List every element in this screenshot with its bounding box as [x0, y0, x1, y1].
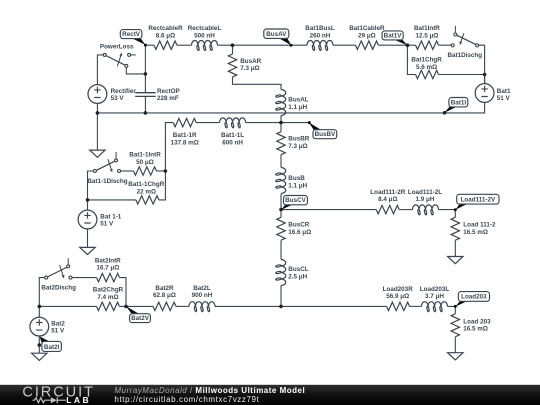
svg-text:62.8 μΩ: 62.8 μΩ — [153, 292, 176, 299]
svg-text:Bat1-1IntR: Bat1-1IntR — [129, 152, 161, 159]
svg-text:LAB: LAB — [66, 395, 91, 405]
switch Bat2Dischg — [45, 276, 48, 279]
svg-text:8.4 μΩ: 8.4 μΩ — [378, 196, 397, 203]
resistor Bat1IntR — [416, 41, 439, 49]
wire top row from RectV node to Bat1 switch — [145, 44, 154, 46]
node label BusBV — [308, 121, 311, 124]
wire Bat1ChgR to Bat1 column — [439, 74, 485, 76]
wire RectV node down through RectOP to return row — [144, 45, 146, 92]
svg-text:RectOP: RectOP — [157, 88, 180, 95]
node label BusCV — [281, 204, 293, 210]
junction Bat2 source top — [38, 305, 42, 309]
wire Bat1 column junction vertical — [484, 75, 486, 84]
svg-text:51 V: 51 V — [497, 95, 511, 102]
svg-text:RectcableR: RectcableR — [148, 25, 183, 32]
svg-text:BusCR: BusCR — [288, 222, 309, 229]
svg-text:3.7 μH: 3.7 μH — [425, 293, 444, 300]
svg-text:51 V: 51 V — [100, 221, 114, 228]
svg-text:7.3 μΩ: 7.3 μΩ — [240, 65, 259, 72]
svg-text:http://circuitlab.com/chmtxc7v: http://circuitlab.com/chmtxc7vzz79t — [114, 395, 259, 404]
svg-text:BusAV: BusAV — [266, 31, 287, 38]
junction Bat1-1IntR right — [164, 169, 168, 173]
inductor BusAL — [281, 90, 286, 116]
resistor Bat2ChgR — [97, 302, 120, 310]
wire rectifier bottom to return row — [96, 103, 98, 113]
wire bottom row Bat2 to bus — [39, 305, 96, 307]
svg-text:8.6 μΩ: 8.6 μΩ — [156, 33, 175, 40]
svg-text:Rectifier: Rectifier — [111, 88, 137, 95]
CircuitLab logo waveform — [33, 398, 51, 403]
node label BusAV — [290, 44, 293, 47]
ground below Load 203 — [448, 353, 463, 360]
svg-text:Load111-2V: Load111-2V — [461, 197, 496, 204]
svg-text:Bat2L: Bat2L — [193, 285, 211, 292]
svg-text:Bat2IntR: Bat2IntR — [95, 257, 121, 264]
resistor Bat1-1R — [173, 118, 196, 126]
svg-text:BusAR: BusAR — [240, 58, 261, 65]
wire Bat1-1 row junction to BusBV stub — [281, 122, 310, 124]
node label Bat2V — [126, 306, 140, 314]
svg-text:BusBV: BusBV — [315, 131, 336, 138]
inductor BusB — [281, 168, 286, 194]
ground below Bat 1-1 — [80, 247, 95, 254]
wire Bat1-1R/L row — [165, 123, 173, 171]
svg-text:Load 111-2: Load 111-2 — [463, 222, 496, 229]
svg-text:16.5 mΩ: 16.5 mΩ — [463, 326, 488, 333]
svg-text:Bat2: Bat2 — [51, 320, 65, 327]
svg-text:Bat2ChgR: Bat2ChgR — [93, 287, 124, 294]
wire Bat2IntR row — [72, 277, 97, 279]
svg-text:228 mF: 228 mF — [157, 95, 179, 102]
resistor Load203R — [387, 302, 410, 310]
svg-text:5.6 mΩ: 5.6 mΩ — [416, 64, 437, 71]
wire Bat2 source to ground — [38, 306, 40, 317]
wire PowerLoss output to RectOP node — [126, 67, 145, 74]
wire bus BusBR to BusB — [280, 123, 282, 132]
svg-text:Bat1I: Bat1I — [451, 99, 467, 106]
junction rectifier return — [96, 111, 100, 115]
svg-text:MurrayMacDonald / Millwoods Ul: MurrayMacDonald / Millwoods Ultimate Mod… — [114, 386, 305, 395]
svg-text:Load 203: Load 203 — [463, 319, 491, 326]
junction RectOP return — [144, 111, 148, 115]
svg-text:PowerLoss: PowerLoss — [100, 43, 134, 50]
footer bar — [0, 385, 540, 405]
voltage source Bat 1-1 — [78, 210, 97, 229]
svg-text:Bat1CableR: Bat1CableR — [349, 25, 385, 32]
wire Bat1-1ChgR row — [88, 199, 136, 201]
svg-text:Bat1-1Dischg: Bat1-1Dischg — [87, 178, 127, 185]
voltage source Bat2 — [30, 317, 49, 336]
resistor Load 111-2 — [451, 217, 459, 240]
svg-text:50 μΩ: 50 μΩ — [136, 159, 154, 166]
svg-text:22 mΩ: 22 mΩ — [137, 188, 156, 195]
svg-text:RectV: RectV — [122, 31, 141, 38]
svg-text:RectcableL: RectcableL — [188, 25, 222, 32]
svg-text:Bat1BusL: Bat1BusL — [305, 25, 335, 32]
svg-text:Load203L: Load203L — [420, 286, 450, 293]
svg-text:7.4 mΩ: 7.4 mΩ — [97, 294, 118, 301]
svg-text:500 nH: 500 nH — [194, 33, 215, 40]
svg-text:2.5 μH: 2.5 μH — [288, 273, 307, 280]
resistor Bat2IntR — [97, 273, 120, 281]
wire Bat1-1IntR row — [121, 170, 134, 172]
svg-text:260 nH: 260 nH — [310, 33, 331, 40]
node label Load203 — [454, 305, 457, 308]
wire BusAR branch — [232, 45, 234, 54]
wire Load111 row from bus — [281, 209, 376, 211]
svg-text:7.3 μΩ: 7.3 μΩ — [288, 143, 307, 150]
svg-text:Bat1ChgR: Bat1ChgR — [411, 57, 442, 64]
inductor Load203L — [422, 302, 448, 307]
inductor RectcableL — [192, 41, 218, 46]
junction BusAR tap — [231, 43, 235, 47]
svg-text:900 nH: 900 nH — [192, 292, 213, 299]
inductor Bat1BusL — [307, 41, 333, 46]
node label Bat1I — [443, 111, 447, 115]
switch Bat1-1Dischg — [93, 170, 96, 173]
svg-text:BusCL: BusCL — [288, 266, 308, 273]
resistor Bat2R — [153, 302, 176, 310]
svg-text:51 V: 51 V — [51, 328, 65, 335]
svg-text:56.9 μΩ: 56.9 μΩ — [386, 293, 409, 300]
node label Bat1V — [394, 40, 408, 46]
svg-text:Load203: Load203 — [461, 294, 487, 301]
junction Bat1-1 source top — [86, 198, 90, 202]
svg-text:BusB: BusB — [288, 175, 305, 182]
svg-text:16.6 μΩ: 16.6 μΩ — [288, 229, 311, 236]
wire Bat1V node down to Bat1ChgR — [407, 45, 415, 74]
svg-text:Bat1-1ChgR: Bat1-1ChgR — [128, 181, 164, 188]
svg-text:16.7 μΩ: 16.7 μΩ — [96, 265, 119, 272]
wire bus BusB to BusCV node — [280, 194, 282, 210]
svg-text:Bat2R: Bat2R — [155, 285, 174, 292]
wire Load 111-2 to ground — [454, 240, 456, 256]
junction Bat1ChgR-Bat1 node — [483, 73, 487, 77]
svg-text:BusCV: BusCV — [285, 197, 306, 204]
wire bus BusCR leads — [280, 210, 282, 218]
svg-text:29 μΩ: 29 μΩ — [358, 33, 376, 40]
resistor Load111-2R — [376, 205, 399, 213]
resistor BusAR — [228, 54, 236, 77]
svg-text:Bat1Dischg: Bat1Dischg — [447, 52, 482, 59]
wire bus BusCL to bottom row — [280, 286, 282, 307]
svg-text:53 V: 53 V — [111, 95, 125, 102]
wire Bat1-1 source to ground — [87, 200, 89, 210]
junction BusCV node — [279, 208, 283, 212]
svg-text:BusBR: BusBR — [288, 136, 309, 143]
resistor Bat1ChgR — [416, 70, 439, 78]
inductor BusCL — [281, 260, 286, 286]
svg-text:1.9 μH: 1.9 μH — [416, 196, 435, 203]
wire Bat1 switch to Bat1 top — [479, 45, 485, 83]
inductor Bat1-1L — [220, 118, 246, 123]
svg-text:600 nH: 600 nH — [222, 139, 243, 146]
svg-text:Bat2I: Bat2I — [44, 344, 60, 351]
capacitor RectOP — [135, 93, 155, 97]
wire BusAL to Bat1-1 row junction — [280, 116, 282, 123]
svg-text:Bat1IntR: Bat1IntR — [414, 25, 440, 32]
resistor Load 203 — [451, 314, 459, 337]
ground below rectifier — [90, 150, 105, 157]
wire Bat1-1 switch to left column — [88, 171, 94, 200]
resistor Bat1CableR — [356, 41, 379, 49]
svg-text:12.5 μΩ: 12.5 μΩ — [415, 33, 438, 40]
svg-text:Bat1: Bat1 — [497, 88, 511, 95]
wire bottom row bus to Load203 — [281, 305, 387, 307]
svg-text:Load111-2L: Load111-2L — [408, 189, 442, 196]
svg-text:BusAL: BusAL — [288, 97, 308, 104]
wire return row rectifier to Bat1 bottom — [97, 102, 484, 113]
inductor Bat2L — [189, 302, 215, 307]
wire rectifier ground stub — [96, 113, 98, 150]
svg-text:1.1 μH: 1.1 μH — [288, 182, 307, 189]
resistor Bat1-1ChgR — [136, 196, 159, 204]
wire Load 203 to ground — [454, 337, 456, 353]
resistor Bat1-1IntR — [134, 167, 157, 175]
svg-text:Bat 1-1: Bat 1-1 — [100, 213, 121, 220]
resistor BusCR — [277, 217, 285, 240]
junction bus bottom row — [279, 305, 283, 309]
node label Load111-2V — [454, 208, 457, 211]
svg-text:Bat1-1R: Bat1-1R — [173, 132, 197, 139]
svg-text:Bat2Dischg: Bat2Dischg — [41, 285, 76, 292]
svg-text:137.8 mΩ: 137.8 mΩ — [171, 139, 199, 146]
svg-text:Load203R: Load203R — [383, 286, 414, 293]
junction Bat1V node — [406, 43, 410, 47]
voltage source Bat1 — [475, 84, 494, 103]
ground below Load 111-2 — [448, 257, 463, 264]
junction PowerLoss-RectOP node — [144, 72, 148, 76]
junction Bat2V node — [124, 305, 128, 309]
ground below Bat2 — [32, 353, 47, 360]
node label Bat2I — [38, 343, 42, 347]
wire Bat2 switch column — [39, 278, 44, 307]
svg-text:Bat2V: Bat2V — [131, 315, 150, 322]
svg-text:Load111-2R: Load111-2R — [370, 189, 405, 196]
junction bus Bat1-1 row — [279, 121, 283, 125]
inductor Load111-2L — [413, 205, 439, 210]
voltage source Rectifier — [88, 85, 107, 104]
resistor RectcableR — [154, 41, 177, 49]
wire rectifier top to PowerLoss — [97, 55, 103, 85]
svg-text:16.5 mΩ: 16.5 mΩ — [463, 229, 488, 236]
switch Bat1Dischg — [451, 44, 454, 47]
switch PowerLoss — [103, 53, 106, 56]
svg-text:Bat1-1L: Bat1-1L — [221, 132, 244, 139]
svg-text:Bat1V: Bat1V — [384, 32, 403, 39]
resistor BusBR — [277, 132, 285, 155]
node label RectV — [144, 44, 147, 47]
svg-text:1.1 μH: 1.1 μH — [288, 104, 307, 111]
